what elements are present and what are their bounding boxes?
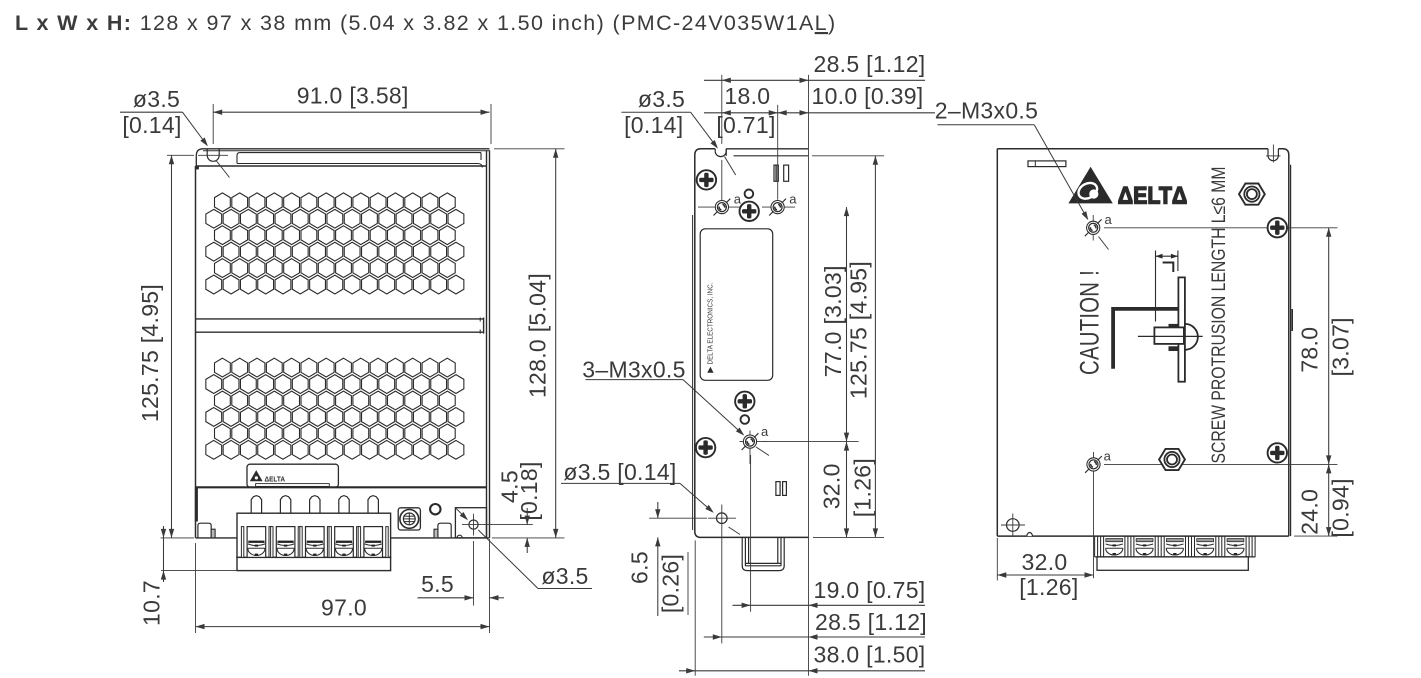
- panel bottom edge line: [196, 486, 487, 488]
- svg-text:18.0: 18.0: [724, 83, 770, 109]
- svg-text:5.5: 5.5: [421, 571, 454, 597]
- left view body outline: [203, 148, 490, 150]
- screw a1: [698, 206, 745, 208]
- dim 6.5 [0.26]: [657, 502, 659, 518]
- dim 10.7: [161, 537, 195, 539]
- svg-text:ø3.5: ø3.5: [541, 563, 588, 589]
- thick side-panel edge segment: [195, 487, 198, 521]
- svg-text:a: a: [1105, 212, 1113, 227]
- dim 4.5 [0.18]: [526, 508, 528, 525]
- svg-text:a: a: [1104, 449, 1112, 464]
- svg-text:SCREW PROTRUSION LENGTH L≤6 M: SCREW PROTRUSION LENGTH L≤6 MM: [1208, 167, 1230, 464]
- bottom hole o3.5: [717, 513, 728, 524]
- middle divider bar: [196, 318, 484, 320]
- phillips screw center-top: [740, 202, 759, 221]
- svg-text:125.75 [4.95]: 125.75 [4.95]: [846, 261, 872, 399]
- terminal cell at 314.8: [306, 527, 325, 558]
- DIN rail clip: [741, 537, 743, 566]
- caution screw diagram: [1156, 255, 1178, 257]
- svg-text:3–M3x0.5: 3–M3x0.5: [582, 357, 685, 383]
- right view body outline: [997, 148, 1268, 150]
- left view (front): [120, 83, 592, 634]
- bottom dims 19.0 / 28.5 / 38.0: [733, 604, 926, 606]
- terminal block: [237, 513, 391, 557]
- svg-text:DELTA ELECTRONICS, INC.: DELTA ELECTRONICS, INC.: [707, 282, 714, 364]
- svg-text:[0.26]: [0.26]: [657, 554, 683, 613]
- svg-text:CAUTION !: CAUTION !: [1074, 270, 1104, 375]
- svg-text:[0.14]: [0.14]: [122, 112, 181, 138]
- dim 78.0 [3.07]: [1328, 228, 1330, 465]
- terminal cell at 256.4: [247, 527, 266, 558]
- svg-text:19.0 [0.75]: 19.0 [0.75]: [814, 577, 926, 603]
- terminal cell at 285.6: [276, 527, 295, 558]
- phillips screw mid: [735, 392, 754, 411]
- screw a3: [740, 441, 768, 443]
- side label (DELTA ELECTRONICS, INC.): [700, 229, 773, 380]
- svg-text:125.75 [4.95]: 125.75 [4.95]: [137, 284, 163, 422]
- honeycomb vent panels: [215, 193, 231, 212]
- svg-text:128.0 [5.04]: 128.0 [5.04]: [525, 273, 551, 398]
- svg-text:[3.07]: [3.07]: [1327, 317, 1353, 376]
- vent slot top-left: [1028, 161, 1066, 167]
- svg-text:97.0: 97.0: [321, 595, 367, 621]
- screw a2 right view: [1093, 452, 1095, 578]
- dim 5.5: [418, 597, 474, 599]
- dim 97.0 bottom: [196, 626, 490, 628]
- middle view (side): [561, 51, 935, 676]
- svg-text:91.0 [3.58]: 91.0 [3.58]: [297, 83, 409, 109]
- dim 32.0 [1.26] right view: [997, 574, 1093, 576]
- svg-text:ΔELTΔ: ΔELTΔ: [1118, 182, 1188, 209]
- extension lines top: [721, 75, 723, 144]
- LED hole: [430, 504, 440, 514]
- keyhole slot top-left: [206, 149, 208, 156]
- svg-text:a: a: [761, 424, 769, 439]
- svg-text:24.0: 24.0: [1296, 489, 1322, 535]
- svg-text:32.0: 32.0: [1022, 549, 1068, 575]
- dim 125.75 [4.95] left: [167, 154, 194, 156]
- small chassis tabs: [198, 523, 211, 538]
- svg-text:[0.18]: [0.18]: [516, 461, 542, 520]
- svg-text:ø3.5: ø3.5: [133, 86, 180, 112]
- bottom-left mounting hole: [1007, 519, 1020, 532]
- svg-text:[1.26]: [1.26]: [1019, 574, 1078, 600]
- svg-text:10.7: 10.7: [139, 580, 165, 626]
- svg-text:32.0: 32.0: [819, 463, 845, 509]
- terminal cell at 373.2: [364, 527, 383, 558]
- dim 32.0 [1.26]: [846, 442, 848, 538]
- svg-text:ø3.5: ø3.5: [638, 86, 685, 112]
- hex nut top: [1239, 184, 1265, 205]
- extension lines bottom: [694, 540, 696, 675]
- keyhole slot top-right: [1267, 149, 1269, 156]
- svg-text:ø3.5 [0.14]: ø3.5 [0.14]: [563, 459, 676, 485]
- terminal block side view: [1095, 556, 1256, 558]
- svg-text:[0.14]: [0.14]: [624, 112, 683, 138]
- svg-text:[1.26]: [1.26]: [849, 458, 875, 517]
- delta logo: [1068, 167, 1112, 204]
- hex nut bottom: [1159, 449, 1185, 470]
- phillips screw lower-left: [696, 438, 715, 457]
- screw a1 right view: [1092, 215, 1094, 241]
- svg-text:38.0 [1.50]: 38.0 [1.50]: [814, 642, 926, 668]
- svg-text:28.5 [1.12]: 28.5 [1.12]: [814, 51, 926, 77]
- terminal pins: [251, 496, 261, 514]
- dim 128.0 [5.04] right: [494, 148, 565, 150]
- svg-text:28.5 [1.12]: 28.5 [1.12]: [815, 609, 927, 635]
- svg-text:78.0: 78.0: [1296, 327, 1322, 373]
- dim 24.0 [0.94]: [1328, 464, 1330, 536]
- svg-text:6.5: 6.5: [626, 551, 652, 584]
- delta label plate: [247, 464, 338, 487]
- svg-text:L x W x H: 128 x 97 x 38 mm (5: L x W x H: 128 x 97 x 38 mm (5.04 x 3.82…: [15, 11, 837, 35]
- corner mounting bracket with hole: [455, 508, 486, 538]
- svg-text:10.0 [0.39]: 10.0 [0.39]: [812, 83, 924, 109]
- dim o3.5 bottom callout: [456, 508, 467, 519]
- vent slots lower: [776, 482, 780, 496]
- terminal cell at 344.0: [335, 527, 354, 558]
- phillips right bottom: [1268, 443, 1287, 462]
- phillips right top: [1268, 218, 1287, 237]
- screw a2: [762, 206, 795, 208]
- dim 125.75 [4.95] middle: [874, 156, 876, 538]
- phillips screw top-left: [697, 170, 716, 189]
- svg-text:2–M3x0.5: 2–M3x0.5: [935, 98, 1038, 124]
- svg-text:77.0 [3.03]: 77.0 [3.03]: [820, 265, 846, 377]
- dim 28.5 [1.12] top: [704, 79, 925, 81]
- bottom edge notch: [1027, 533, 1033, 537]
- svg-text:[0.71]: [0.71]: [716, 112, 775, 138]
- potentiometer: [398, 508, 420, 530]
- dim 18.0 / 10.0 chain: [704, 112, 935, 114]
- small hole: [745, 190, 754, 199]
- svg-text:a: a: [789, 192, 797, 207]
- svg-text:[0.94]: [0.94]: [1327, 478, 1353, 537]
- svg-text:a: a: [734, 192, 742, 207]
- svg-text:ΔELTA: ΔELTA: [265, 475, 286, 484]
- dim 77.0 [3.03]: [846, 207, 848, 442]
- right view: [935, 98, 1354, 601]
- vent slots top: [774, 165, 778, 181]
- middle view body outline: [695, 149, 809, 538]
- dim 91.0 [3.58]: [213, 111, 489, 113]
